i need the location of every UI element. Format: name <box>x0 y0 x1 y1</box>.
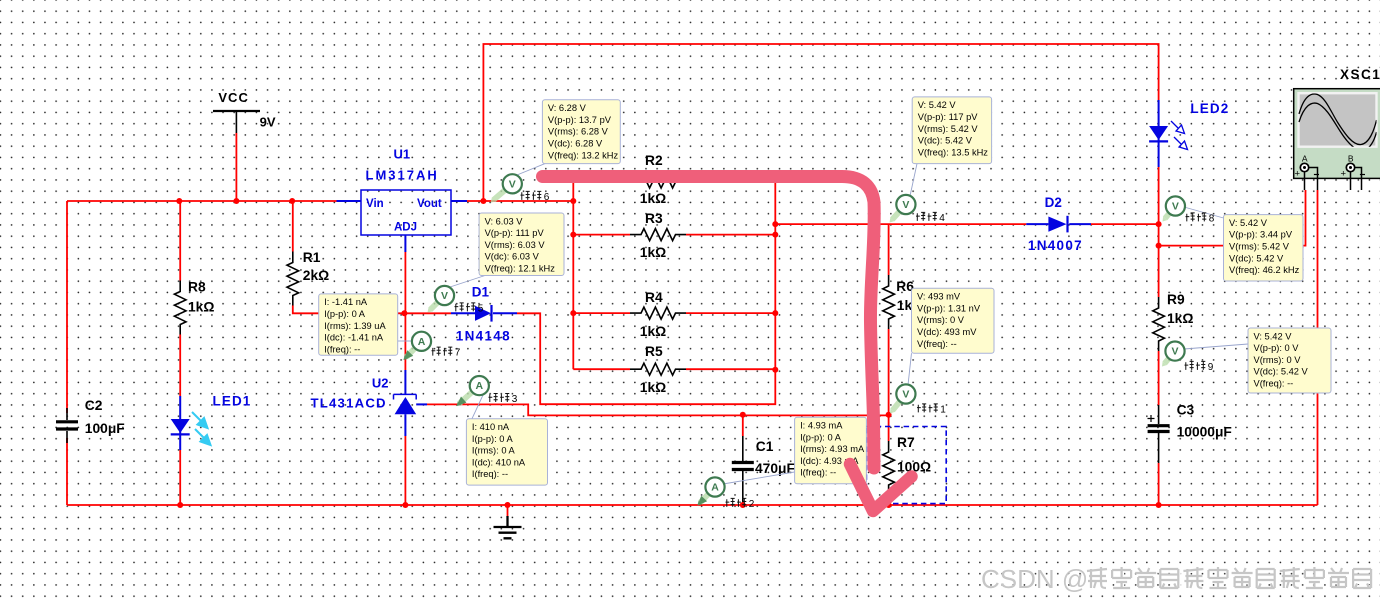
wire U2 ref lead <box>416 403 427 405</box>
wire D2 anode lead <box>1026 223 1048 225</box>
svg-text:8: 8 <box>1209 213 1215 224</box>
svg-text:1kΩ: 1kΩ <box>188 300 214 315</box>
LED2 light arrows <box>1171 121 1188 150</box>
capacitor C2 <box>56 408 78 443</box>
svg-text:V(freq): 13.5 kHz: V(freq): 13.5 kHz <box>918 147 989 157</box>
svg-text:LED1: LED1 <box>213 394 252 409</box>
svg-text:ADJ: ADJ <box>394 222 417 234</box>
callout line probe1 <box>908 353 912 385</box>
svg-text:R5: R5 <box>645 344 663 359</box>
measurement box probe1 <box>912 288 995 353</box>
svg-text:7: 7 <box>455 348 461 359</box>
svg-text:1N4007: 1N4007 <box>1028 238 1083 253</box>
probe 5 label <box>455 303 464 312</box>
wire scope A+ to output <box>1159 190 1306 246</box>
svg-text:I(rms): 4.93 mA: I(rms): 4.93 mA <box>800 444 865 454</box>
wire LED1 lead <box>179 396 181 450</box>
svg-text:V(rms): 0 V: V(rms): 0 V <box>917 315 965 325</box>
wire R2 row left <box>573 181 641 183</box>
wire R5 row left <box>573 368 630 370</box>
LED1 light arrows <box>192 412 211 445</box>
junction <box>740 412 746 418</box>
svg-text:V(rms): 6.03 V: V(rms): 6.03 V <box>485 240 546 250</box>
svg-text:V(dc): 5.42 V: V(dc): 5.42 V <box>1229 253 1284 263</box>
wire U1 Vout lead <box>451 200 467 202</box>
wire R8 to LED1 <box>179 335 181 397</box>
svg-text:+: + <box>1295 169 1301 180</box>
measurement box probe5 <box>479 213 564 276</box>
wire R4 row right <box>686 312 775 314</box>
svg-text:R2: R2 <box>645 153 663 168</box>
junction <box>1156 243 1162 249</box>
wire R bank left vertical <box>572 182 574 369</box>
probe 6 (V) <box>494 190 506 200</box>
svg-text:V(p-p): 0 V: V(p-p): 0 V <box>1254 343 1300 353</box>
probe 8 label <box>1186 213 1195 222</box>
wire U2 row to R7 node <box>427 404 889 415</box>
resistor R6 <box>883 275 895 329</box>
resistor R2 <box>573 176 775 188</box>
svg-text:+: + <box>1341 169 1347 180</box>
wire R1 bottom corner <box>293 306 405 314</box>
svg-text:R8: R8 <box>188 280 206 295</box>
wire D1 cathode lead <box>493 312 517 314</box>
svg-text:I: 4.93 mA: I: 4.93 mA <box>800 421 843 431</box>
svg-text:V: V <box>1172 201 1179 213</box>
wire R6 top lead <box>888 224 890 275</box>
svg-text:V: 5.42 V: V: 5.42 V <box>1229 218 1268 228</box>
svg-text:V(freq): 13.2 kHz: V(freq): 13.2 kHz <box>548 150 619 160</box>
junction <box>886 412 892 418</box>
measurement box probe2 <box>795 417 867 484</box>
wire D1 to R bank <box>517 313 775 404</box>
wire C3 lead bottom <box>1158 433 1160 463</box>
svg-text:2: 2 <box>749 499 755 510</box>
junction <box>570 310 576 316</box>
power VCC symbol <box>213 90 276 133</box>
junction <box>772 232 778 238</box>
junction <box>772 367 778 373</box>
probe 7 (A) <box>406 348 415 357</box>
svg-text:5: 5 <box>478 303 484 314</box>
junction <box>570 198 576 204</box>
svg-text:V: 5.42 V: V: 5.42 V <box>1254 331 1293 341</box>
wire R8 column upper <box>179 201 181 281</box>
probe 3 (A) <box>460 392 473 403</box>
callout line probe2 <box>723 472 795 484</box>
svg-text:I: 410 nA: I: 410 nA <box>472 422 510 432</box>
svg-text:3: 3 <box>512 394 518 405</box>
svg-text:I(freq): --: I(freq): -- <box>324 344 360 354</box>
svg-text:9V: 9V <box>260 115 276 130</box>
svg-text:A: A <box>418 336 426 348</box>
probe 1 label <box>917 404 926 413</box>
measurement box probe4 <box>912 97 991 164</box>
junction <box>1156 221 1162 227</box>
probe 4 label <box>916 212 925 221</box>
measurement box probe6 <box>542 100 620 164</box>
svg-text:V: V <box>902 199 909 211</box>
resistor R5 <box>630 363 686 375</box>
svg-text:1kΩ: 1kΩ <box>640 191 666 206</box>
svg-text:R1: R1 <box>303 250 321 265</box>
svg-text:V(p-p): 117 pV: V(p-p): 117 pV <box>918 112 979 122</box>
junction <box>402 502 408 508</box>
wire ADJ to D1 row <box>404 252 406 313</box>
svg-text:I(p-p): 0 A: I(p-p): 0 A <box>472 434 514 444</box>
svg-text:A: A <box>711 482 719 494</box>
svg-text:6: 6 <box>544 192 550 203</box>
junction <box>772 310 778 316</box>
svg-text:4: 4 <box>939 213 945 224</box>
svg-text:V(dc): 493 mV: V(dc): 493 mV <box>917 327 977 337</box>
wire R bank right vertical <box>774 182 776 370</box>
resistor R8 <box>174 281 186 335</box>
diode D1 1N4148 <box>475 305 492 322</box>
svg-text:A: A <box>476 380 484 392</box>
measurement box probe7 <box>319 294 398 355</box>
svg-text:1kΩ: 1kΩ <box>1167 311 1193 326</box>
svg-text:D1: D1 <box>472 285 490 300</box>
callout line probe4 <box>910 164 917 196</box>
svg-text:1: 1 <box>940 404 946 415</box>
wire U1 ADJ lead <box>404 235 406 252</box>
wire LED2 lead <box>1158 100 1160 167</box>
probe 3 label <box>489 394 498 403</box>
svg-text:I(freq): --: I(freq): -- <box>472 469 508 479</box>
LED LED2 <box>1149 126 1168 141</box>
junction <box>1156 502 1162 508</box>
callout line probe6 <box>517 164 545 175</box>
svg-text:R9: R9 <box>1167 292 1185 307</box>
wire D1 row left <box>404 312 451 314</box>
diode D2 1N4007 <box>1048 216 1067 233</box>
measurement box probe3 <box>466 419 547 485</box>
LED LED1 <box>171 419 190 434</box>
wire U2 to bus <box>404 436 406 505</box>
svg-text:100μF: 100μF <box>85 421 125 436</box>
svg-text:V(freq): 46.2 kHz: V(freq): 46.2 kHz <box>1229 265 1300 275</box>
wire LED1 to bus <box>179 450 181 505</box>
svg-text:V(dc): 6.03 V: V(dc): 6.03 V <box>485 252 540 262</box>
svg-text:V: V <box>1171 346 1178 358</box>
svg-text:C2: C2 <box>85 398 103 413</box>
wire R5 row right <box>686 368 775 370</box>
wire U2 stem bottom <box>404 414 406 436</box>
callout line probe9 <box>1184 344 1248 349</box>
callout line probe7 <box>398 340 413 342</box>
measurement box probe9 <box>1248 328 1331 393</box>
svg-text:D2: D2 <box>1045 195 1062 210</box>
dashed selection box around R7 <box>866 427 946 504</box>
svg-text:I(dc): 410 nA: I(dc): 410 nA <box>472 457 526 467</box>
svg-text:1kΩ: 1kΩ <box>640 324 666 339</box>
capacitor C3 <box>1148 415 1170 432</box>
ground symbol <box>494 516 522 538</box>
oscilloscope XSC1 <box>1294 89 1380 190</box>
junction <box>480 198 486 204</box>
probe 4 (V) <box>892 212 899 220</box>
wire R1 column upper <box>292 201 294 252</box>
junction <box>740 502 746 508</box>
red marker highlight stroke <box>543 177 912 512</box>
svg-text:V: 6.03 V: V: 6.03 V <box>485 216 524 226</box>
svg-text:V(dc): 5.42 V: V(dc): 5.42 V <box>918 136 973 146</box>
svg-text:470μF: 470μF <box>755 461 795 476</box>
wire U1 Vin lead <box>337 200 362 202</box>
wire Vout node <box>467 200 573 202</box>
junction <box>233 198 239 204</box>
junction <box>401 310 407 316</box>
callout line probe8 <box>1184 207 1224 218</box>
probe 9 (V) <box>1165 358 1169 363</box>
wire LED2 to D2 node <box>1158 167 1160 297</box>
probe 2 (A) <box>700 494 708 503</box>
wire C1 top lead <box>742 415 744 436</box>
svg-text:V(p-p): 1.31 nV: V(p-p): 1.31 nV <box>917 303 981 313</box>
svg-text:U1: U1 <box>394 147 411 162</box>
svg-text:Vin: Vin <box>366 198 384 210</box>
svg-text:V: 493 mV: V: 493 mV <box>917 292 961 302</box>
svg-text:LED2: LED2 <box>1190 101 1229 116</box>
wire D2 row right <box>1091 223 1159 225</box>
svg-text:V(freq): 12.1 kHz: V(freq): 12.1 kHz <box>485 264 556 274</box>
svg-text:V(rms): 5.42 V: V(rms): 5.42 V <box>1229 242 1290 252</box>
resistor R4 <box>630 307 686 319</box>
callout line probe5 <box>450 276 485 288</box>
svg-text:9: 9 <box>1208 362 1214 373</box>
wire U2 stem top <box>404 370 406 394</box>
svg-text:V(rms): 5.42 V: V(rms): 5.42 V <box>918 124 979 134</box>
svg-text:CSDN @: CSDN @ <box>981 564 1088 594</box>
probe 5 (V) <box>430 302 438 310</box>
svg-text:V(p-p): 111 pV: V(p-p): 111 pV <box>485 228 545 238</box>
svg-text:V(dc): 6.28 V: V(dc): 6.28 V <box>548 139 603 149</box>
svg-text:C1: C1 <box>756 439 774 454</box>
wire D1 anode lead <box>451 312 475 314</box>
svg-text:R4: R4 <box>645 290 663 305</box>
wire R9 to C3 <box>1158 351 1160 405</box>
wire top rail <box>483 44 1158 201</box>
svg-text:V(freq): --: V(freq): -- <box>917 339 957 349</box>
svg-text:C3: C3 <box>1177 403 1195 418</box>
shunt regulator U2 TL431ACD <box>394 394 417 414</box>
svg-text:1N4148: 1N4148 <box>456 329 511 344</box>
svg-text:V(rms): 0 V: V(rms): 0 V <box>1254 355 1302 365</box>
resistor R3 <box>630 229 686 241</box>
svg-text:V: V <box>441 290 448 302</box>
svg-text:V: 5.42 V: V: 5.42 V <box>918 100 957 110</box>
svg-text:I(p-p): 0 A: I(p-p): 0 A <box>800 432 842 442</box>
svg-text:Vout: Vout <box>417 198 442 210</box>
svg-text:I(p-p): 0 A: I(p-p): 0 A <box>324 309 366 319</box>
junction <box>772 221 778 227</box>
svg-text:V: 6.28 V: V: 6.28 V <box>548 103 587 113</box>
probe 9 label <box>1185 361 1194 370</box>
svg-text:B: B <box>1348 154 1354 164</box>
wire R6 to R7 <box>888 329 890 441</box>
wire bottom bus <box>67 504 1318 506</box>
svg-text:VCC: VCC <box>218 90 248 105</box>
junction <box>886 502 892 508</box>
svg-text:I(freq): --: I(freq): -- <box>800 468 836 478</box>
probe 7 label <box>432 347 441 356</box>
svg-text:U2: U2 <box>372 376 389 391</box>
svg-text:I(dc): -1.41 nA: I(dc): -1.41 nA <box>324 333 384 343</box>
wire R3 row left <box>573 234 630 236</box>
junction <box>177 502 183 508</box>
wire C3 to bus <box>1158 463 1160 505</box>
svg-text:1kΩ: 1kΩ <box>640 380 666 395</box>
svg-text:LM317AH: LM317AH <box>366 168 439 183</box>
junction <box>176 198 182 204</box>
svg-text:V(p-p): 13.7 pV: V(p-p): 13.7 pV <box>548 115 612 125</box>
resistor R7 <box>883 441 895 495</box>
svg-text:I(rms): 0 A: I(rms): 0 A <box>472 446 516 456</box>
measurement box probe8 <box>1224 215 1304 281</box>
probe 2 label <box>726 498 735 507</box>
svg-text:V(dc): 5.42 V: V(dc): 5.42 V <box>1254 367 1309 377</box>
resistor R9 <box>1153 297 1165 351</box>
wire R3 row right <box>686 234 775 236</box>
wire C3 lead top <box>1158 405 1160 424</box>
wire R4 row left <box>573 312 630 314</box>
svg-text:A: A <box>1302 154 1308 164</box>
wire ground stem <box>507 505 509 516</box>
svg-text:R7: R7 <box>897 435 915 450</box>
wire R2 row right <box>676 181 776 183</box>
svg-text:V: V <box>509 178 516 190</box>
svg-text:2kΩ: 2kΩ <box>303 268 329 283</box>
capacitor C1 <box>732 463 754 470</box>
wire VCC stem <box>235 133 237 201</box>
wire D2 cathode lead <box>1069 223 1091 225</box>
probe 1 (V) <box>893 401 900 410</box>
svg-text:V(freq): --: V(freq): -- <box>1254 379 1294 389</box>
wire left vertical <box>66 201 68 413</box>
op-amp U1 LM317AH box <box>361 190 451 235</box>
svg-text:TL431ACD: TL431ACD <box>311 396 387 411</box>
wire node to U2 <box>404 313 406 370</box>
wire R7 to bus <box>888 495 890 505</box>
svg-text:1kΩ: 1kΩ <box>640 245 666 260</box>
wire D2 row left <box>775 223 1026 225</box>
probe 6 label <box>521 191 530 200</box>
svg-text:10000μF: 10000μF <box>1177 425 1232 440</box>
svg-text:V: V <box>902 389 909 401</box>
wire top bus <box>67 200 337 202</box>
svg-text:XSC1: XSC1 <box>1340 67 1380 82</box>
svg-text:V(rms): 6.28 V: V(rms): 6.28 V <box>548 127 609 137</box>
junction <box>505 502 511 508</box>
wire C1 bottom lead <box>742 470 744 505</box>
svg-text:I(rms): 1.39 uA: I(rms): 1.39 uA <box>324 321 386 331</box>
junction <box>570 232 576 238</box>
svg-text:V(p-p): 3.44 pV: V(p-p): 3.44 pV <box>1229 230 1293 240</box>
svg-text:I: -1.41 nA: I: -1.41 nA <box>324 297 368 307</box>
probe 8 (V) <box>1165 213 1169 218</box>
callout line probe3 <box>472 395 483 419</box>
svg-text:R3: R3 <box>645 211 663 226</box>
resistor R1 <box>287 252 299 306</box>
wire scope A- to ground bus <box>1317 190 1319 505</box>
junction <box>289 198 295 204</box>
